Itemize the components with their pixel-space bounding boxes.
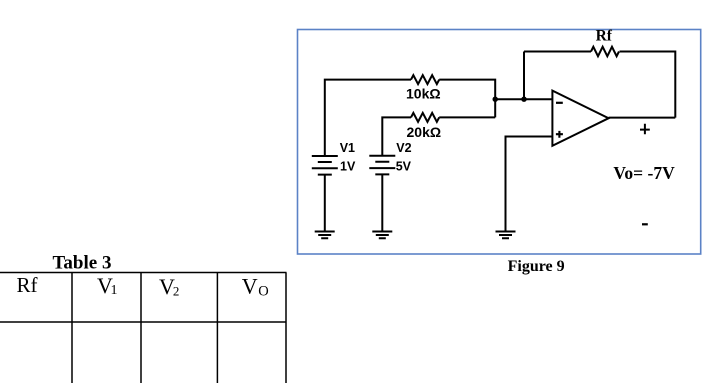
svg-text:1V: 1V	[340, 160, 356, 174]
wire summing node to op-amp inverting input	[495, 98, 552, 100]
table top border	[0, 272, 287, 274]
table header row divider	[0, 321, 287, 323]
resistor R2 20k zigzag	[411, 113, 439, 122]
table vertical line 3	[216, 273, 218, 383]
svg-text:V: V	[242, 274, 258, 299]
wire feedback top right segment and right vertical	[620, 52, 676, 118]
wire battery V2 to ground	[381, 174, 383, 231]
node junction dot B	[521, 97, 526, 102]
node junction dot A	[493, 97, 498, 102]
resistor Rf zigzag	[591, 47, 619, 57]
svg-text:Vo= -7V: Vo= -7V	[613, 163, 675, 183]
wire battery V1 to ground	[324, 175, 326, 232]
svg-text:V2: V2	[396, 141, 411, 155]
wire op-amp non-inverting input to ground	[506, 137, 553, 232]
wire R2 to summing junction	[439, 116, 495, 118]
output plus sign	[640, 124, 650, 134]
wire V1 branch to R1	[325, 80, 411, 156]
svg-text:20kΩ: 20kΩ	[407, 124, 442, 140]
op-amp inverting input minus sign	[556, 102, 563, 104]
ground for V2	[372, 232, 392, 239]
svg-text:V1: V1	[340, 141, 355, 155]
output minus sign	[642, 223, 648, 225]
op-amp non-inverting input plus sign	[556, 131, 563, 138]
wire feedback left vertical	[523, 52, 525, 100]
svg-text:Figure 9: Figure 9	[508, 258, 565, 275]
svg-text:Rf: Rf	[596, 28, 613, 45]
ground for op-amp non-inverting input	[496, 232, 516, 239]
svg-text:1: 1	[111, 283, 118, 298]
svg-text:Table 3: Table 3	[53, 252, 112, 273]
wire op-amp output	[609, 117, 676, 119]
ground for V1	[315, 232, 335, 239]
op-amp U1 triangle	[552, 91, 608, 146]
wire R1 to summing junction and down	[439, 80, 495, 118]
resistor R1 10k zigzag	[411, 75, 439, 84]
table vertical line 2	[140, 273, 142, 383]
table vertical line 1	[71, 273, 73, 383]
battery V1 plates	[312, 156, 338, 175]
battery V2 plates	[369, 156, 395, 175]
svg-text:5V: 5V	[396, 160, 412, 174]
svg-text:10kΩ: 10kΩ	[406, 86, 441, 102]
wire V2 branch to R2	[382, 117, 411, 155]
svg-text:Rf: Rf	[17, 273, 38, 297]
wire feedback top left segment	[524, 51, 591, 53]
table vertical line 4	[285, 273, 287, 383]
svg-text:O: O	[258, 283, 268, 299]
figure border box	[298, 30, 701, 255]
svg-text:2: 2	[173, 284, 180, 299]
